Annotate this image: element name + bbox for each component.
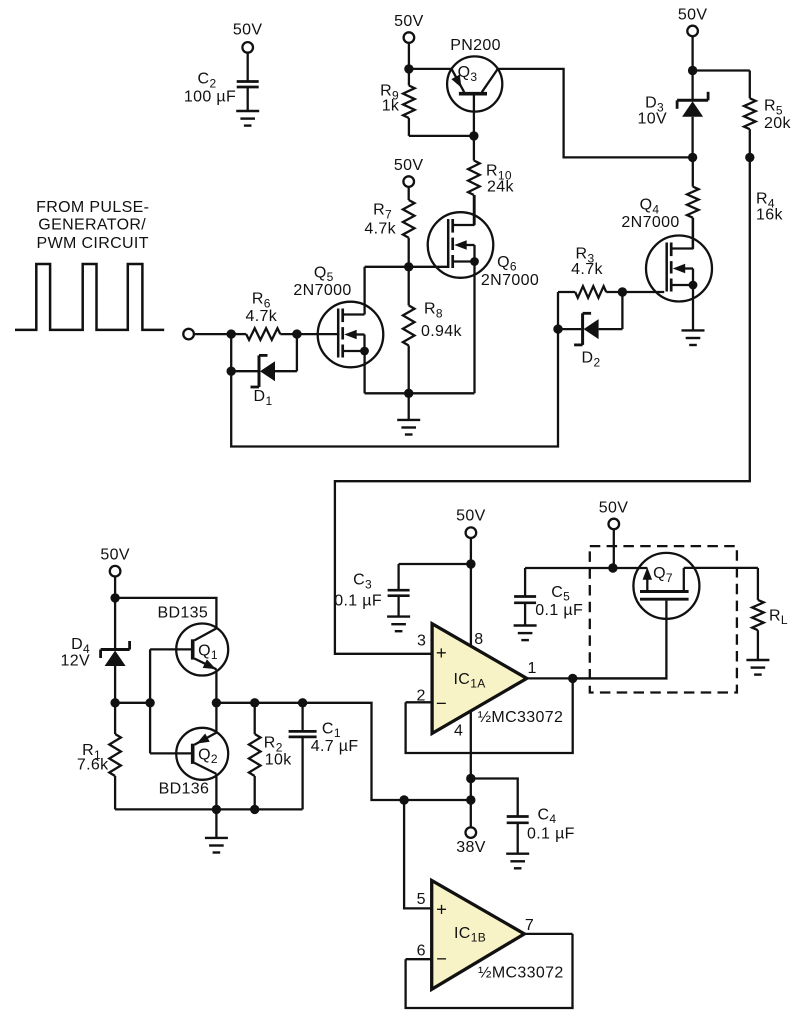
svg-text:BD136: BD136 [159,780,210,797]
transistor Q2 BD136 (PNP) [176,728,228,780]
wire C5 rail [525,567,647,569]
svg-text:PN200: PN200 [450,37,501,54]
node ground rail [404,389,413,398]
node R3 right [618,287,627,296]
ground (C5) [514,624,537,626]
zener diode D2 [558,328,581,330]
50V supply terminal (Q7) [609,519,620,530]
svg-text:Q6: Q6 [497,254,517,274]
wire C3 branch [399,563,471,565]
transistor Q7 (P-MOSFET) [633,553,699,619]
svg-text:Q5: Q5 [314,265,334,285]
resistor R8 0.94k [408,267,410,306]
wire pin 8 [470,564,472,647]
wire Q2 base [150,752,191,754]
capacitor C4 0.1uF [507,815,529,818]
svg-text:1: 1 [527,660,536,677]
ground (RL) [746,659,769,661]
50V supply terminal (C2) [242,42,253,53]
node R9 top [404,64,413,73]
svg-text:50V: 50V [394,157,424,174]
svg-text:7: 7 [525,917,534,934]
input terminal [183,329,194,340]
wire [114,576,116,598]
svg-text:2N7000: 2N7000 [621,214,679,231]
wire Q5 drain to Q6 gate [365,266,449,268]
svg-text:GENERATOR/: GENERATOR/ [38,217,146,234]
50V supply terminal (D3) [687,26,698,37]
node R5 bottom [745,153,754,162]
wire gate Q5 [297,333,340,335]
wire base coupling [149,649,151,753]
node D4 bottom [110,698,119,707]
svg-text:12V: 12V [60,653,90,670]
node C5/Q7 [608,563,617,572]
wire [408,186,410,200]
50V supply terminal (Q3) [404,32,415,43]
svg-text:C2: C2 [198,71,217,91]
wire [409,135,474,137]
node Q2 collector [212,805,221,814]
svg-text:4.7 µF: 4.7 µF [311,738,359,755]
svg-text:50V: 50V [678,7,708,24]
svg-text:50V: 50V [394,13,424,30]
transistor Q3 PN200 (PNP) [447,56,502,111]
wire [408,42,410,69]
svg-text:0.94k: 0.94k [421,323,463,340]
pulse waveform [15,264,164,330]
svg-text:C5: C5 [551,584,570,604]
wire Q1 base [150,648,191,650]
svg-text:PWM CIRCUIT: PWM CIRCUIT [37,235,149,252]
node R7/R8/Q6 gate [404,262,413,271]
svg-text:−: − [436,948,447,969]
wire pin 6 stub [406,958,432,960]
resistor R9 1k [408,69,410,86]
wire Q2 collector down [215,774,217,810]
wire [613,529,615,568]
wire Q3 collector to D3 node [498,69,693,157]
wire output [527,677,666,679]
svg-text:C4: C4 [538,806,557,826]
node C4 branch [466,774,475,783]
capacitor C1 4.7uF [301,703,303,732]
svg-text:50V: 50V [456,508,486,525]
node D2 left [553,324,562,333]
svg-text:24k: 24k [487,179,514,196]
wire Q1 emitter down [215,669,217,703]
svg-text:5: 5 [417,891,426,908]
node R2 bottom [250,805,259,814]
resistor R1 7.6k [114,703,116,734]
ground (C4) [506,853,529,855]
resistor R6 4.7k [231,333,246,335]
node bias top [110,593,119,602]
wire pin 4 / 38V column [470,711,472,828]
50V supply terminal (IC1A) [466,527,477,538]
feedback loop IC1A [406,678,573,753]
svg-text:R8: R8 [424,301,443,321]
wire pin 5 column [404,800,432,908]
svg-text:Q1: Q1 [198,643,218,663]
node Q3 base [469,131,478,140]
wire C4 branch [471,779,518,817]
node pin5 branch [399,795,408,804]
ground (Q4) [682,329,705,331]
svg-text:R7: R7 [373,202,392,222]
transistor Q1 BD135 (NPN) [176,624,228,676]
resistor R7 4.7k [403,200,415,238]
wire emitters rail [216,702,302,704]
wire Q2 emitter up [215,703,217,733]
dashed box [590,546,737,692]
svg-text:8: 8 [474,631,483,648]
wire [693,69,750,71]
svg-text:38V: 38V [456,839,486,856]
svg-text:2N7000: 2N7000 [293,282,351,299]
wire [409,68,452,70]
svg-text:16k: 16k [756,207,783,224]
svg-text:0.1 µF: 0.1 µF [527,825,575,842]
svg-text:FROM PULSE-: FROM PULSE- [36,199,149,216]
svg-text:4.7k: 4.7k [364,221,396,238]
ground (C2) [236,110,259,112]
svg-text:1k: 1k [382,98,400,115]
node 38V [466,795,475,804]
op-amp IC1B [432,881,525,990]
ground (Q5/Q6/R8) [408,393,410,420]
wire Q7 drain to RL [684,567,758,569]
svg-text:D1: D1 [254,388,273,408]
svg-text:100 µF: 100 µF [184,89,236,106]
resistor R10 24k [473,136,475,161]
svg-text:Q3: Q3 [458,64,478,84]
wire [470,537,472,564]
capacitor C5 0.1uF [524,568,526,597]
svg-text:+: + [436,642,447,663]
svg-text:10V: 10V [637,111,667,128]
wire Q7 gate [573,601,667,679]
svg-text:4.7k: 4.7k [571,261,603,278]
node output [568,674,577,683]
wire R3 to Q4 gate [622,291,664,293]
wire source rail [365,392,475,394]
transistor Q4 2N7000 [646,236,712,302]
svg-text:4: 4 [454,723,463,740]
wire [247,87,249,111]
node D3 bottom [688,153,697,162]
svg-text:Q2: Q2 [198,747,218,767]
svg-text:4.7k: 4.7k [245,308,277,325]
wire emitter node to 38V node [303,703,471,800]
svg-text:C3: C3 [353,572,372,592]
svg-text:3: 3 [417,633,426,650]
svg-text:RL: RL [769,607,788,627]
wire bases rail [115,702,150,704]
resistor R2 10k [254,703,256,734]
svg-text:D2: D2 [582,350,601,370]
transistor Q6 2N7000 [428,212,494,278]
op-amp IC1A [432,624,527,734]
svg-text:50V: 50V [100,547,130,564]
wire [193,333,231,335]
50V supply terminal (R7) [403,176,414,187]
zener diode D4 12V [114,598,116,650]
wire D3 node to IC1A pin3 [335,157,750,653]
wire pin 2 stub [406,701,433,703]
bottom rail [115,808,303,810]
svg-text:50V: 50V [599,499,629,516]
wire input to R3/D2 [231,292,558,447]
svg-text:½MC33072: ½MC33072 [478,965,564,982]
svg-text:+: + [436,899,447,920]
svg-text:0.1 µF: 0.1 µF [535,602,583,619]
capacitor C2 [237,80,259,83]
resistor R4 16k [692,157,694,186]
transistor Q5 2N7000 [318,302,384,368]
svg-text:20k: 20k [764,115,791,132]
50V supply terminal (bias) [110,566,121,577]
zener diode D1 [231,370,258,372]
ground (output stage) [215,809,217,838]
svg-text:7.6k: 7.6k [77,757,109,774]
wire input node down [230,334,232,371]
svg-text:−: − [436,692,447,713]
node D3 top [688,66,697,75]
node bases [145,698,154,707]
node D1 left [227,367,236,376]
wire top rail to Q1 collector [115,598,216,629]
ground (C3) [387,615,410,617]
resistor R3 4.7k [558,291,575,293]
wire output IC1B [524,933,572,935]
capacitor C3 0.1uF [397,564,399,590]
svg-text:50V: 50V [233,22,263,39]
load resistor RL [757,568,759,600]
resistor R5 20k [749,71,751,99]
wire [247,52,249,82]
38V terminal [466,827,477,838]
svg-text:½MC33072: ½MC33072 [478,709,564,726]
node R2 top [250,698,259,707]
svg-text:10k: 10k [265,752,292,769]
node R6 right [292,329,301,338]
feedback loop IC1B [406,934,573,1008]
svg-text:BD135: BD135 [157,605,208,622]
svg-text:0.1 µF: 0.1 µF [334,593,382,610]
node pin8/C3 [466,559,475,568]
svg-text:6: 6 [417,942,426,959]
node input [227,329,236,338]
wire [691,36,693,71]
node emitters [212,698,221,707]
zener diode D3 10V [691,71,693,101]
svg-text:Q7: Q7 [653,565,673,585]
node C1 top [298,698,307,707]
svg-text:2N7000: 2N7000 [481,272,539,289]
